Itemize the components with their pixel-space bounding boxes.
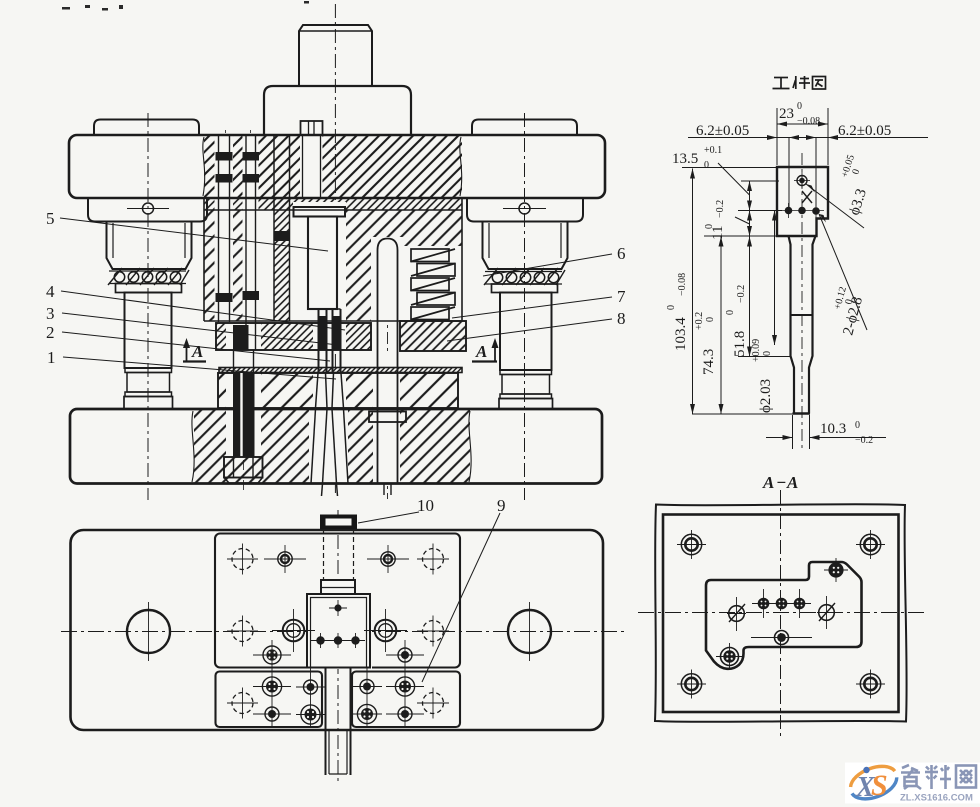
- stock strip: [219, 368, 462, 373]
- feeder tab part 10: [320, 515, 357, 530]
- svg-text:9: 9: [497, 496, 506, 515]
- svg-text:6: 6: [617, 244, 626, 263]
- svg-text:+0.1: +0.1: [704, 145, 722, 156]
- lobe screw: [721, 648, 739, 666]
- lower die shoe: [70, 409, 602, 484]
- bottom centre hole: [775, 631, 789, 645]
- white void knockout rod pocket: [371, 237, 404, 321]
- white void rod channel die+shoe: [373, 351, 400, 483]
- svg-text:A: A: [475, 342, 487, 361]
- svg-text:−: −: [776, 473, 786, 492]
- blank layout contour: [706, 562, 862, 669]
- top slotted screw: [301, 121, 323, 135]
- svg-text:0: 0: [704, 160, 709, 171]
- T stem: [325, 668, 327, 776]
- dimension extension lines: [682, 108, 928, 449]
- scan specks top left: [62, 1, 309, 11]
- svg-text:0: 0: [797, 101, 802, 112]
- right guide bushing boss: [467, 198, 583, 222]
- dashed tapped holes with crosshairs: [232, 549, 444, 714]
- svg-text:10.3: 10.3: [820, 421, 846, 437]
- screw head: [224, 457, 263, 478]
- hatch die plate: [218, 373, 458, 408]
- coil spring (part 6): [411, 249, 455, 320]
- hatch stripper plate: [216, 323, 371, 350]
- small double circles top row: [278, 552, 292, 566]
- shank flange: [264, 86, 411, 135]
- svg-text:−0.08: −0.08: [677, 273, 688, 296]
- svg-text:A: A: [786, 473, 798, 492]
- svg-text:1: 1: [47, 348, 56, 367]
- right guide pillar: [500, 293, 552, 371]
- white void between bolts and punch chamber: [259, 210, 295, 321]
- centerlines: [61, 631, 628, 633]
- right pillar washer: [492, 284, 558, 293]
- holes: [797, 176, 807, 186]
- title: [762, 473, 798, 492]
- stripper plate outline: [216, 323, 371, 350]
- svg-text:+0.09: +0.09: [751, 339, 762, 362]
- svg-text:2: 2: [46, 323, 55, 342]
- white dots inside socket screws: [268, 651, 408, 718]
- hatch ejector block 8: [400, 321, 466, 351]
- left guide bushing boss: [88, 198, 207, 222]
- hatch upper plate: [204, 135, 462, 198]
- svg-text:0: 0: [704, 224, 715, 229]
- part stem: [789, 236, 795, 414]
- ejector block (parts 7/8): [400, 321, 466, 351]
- punch dots in plan: [334, 604, 341, 611]
- left pillar washer: [116, 284, 182, 293]
- white void spring pocket: [404, 246, 462, 321]
- left guide pillar: [125, 293, 172, 369]
- svg-text:+0.2: +0.2: [694, 312, 705, 330]
- svg-text:74.3: 74.3: [701, 349, 717, 375]
- wavy break lines upper plate: [203, 137, 205, 196]
- zi: [902, 765, 909, 768]
- right bushing cap: [472, 120, 577, 136]
- centerline stripper bolts: [225, 130, 227, 310]
- centerline knockout rod: [387, 240, 389, 499]
- upper die shoe plate: [69, 135, 605, 198]
- backing plate lines: [204, 197, 462, 199]
- white void blade passage stripper: [313, 323, 346, 350]
- punch blades: [318, 309, 320, 373]
- svg-text:0: 0: [725, 310, 736, 315]
- corner screws: [681, 534, 880, 694]
- T top tab: [321, 580, 355, 594]
- svg-text:−0.2: −0.2: [715, 200, 726, 218]
- left boss center mark: [143, 203, 154, 214]
- right spring washer row: [485, 271, 562, 273]
- white void screw head slot: [300, 120, 323, 198]
- svg-text:5: 5: [46, 209, 55, 228]
- centerline left pillar: [147, 113, 149, 500]
- svg-text:23: 23: [779, 106, 794, 122]
- centerline right pillar: [524, 113, 526, 500]
- workpiece texts: [666, 76, 891, 446]
- stripper screw thread (black): [233, 325, 255, 457]
- narrow riser strip: [273, 135, 275, 321]
- part centerline: [801, 153, 803, 449]
- bump screw: [828, 562, 843, 577]
- dimension texts: [672, 106, 891, 437]
- rod collar: [369, 412, 406, 423]
- arrowheads: [690, 122, 838, 441]
- knockout rod dome: [378, 239, 398, 322]
- svg-text:−0.08: −0.08: [797, 116, 820, 127]
- liao: [930, 765, 933, 789]
- left bushing body: [107, 222, 192, 270]
- wang: [956, 766, 976, 788]
- centerlines: [780, 490, 782, 736]
- zi liao wang drawn glyphs: [901, 765, 976, 789]
- part head outline: [777, 167, 828, 236]
- svg-text:51.8: 51.8: [732, 331, 748, 357]
- white void punch chamber + punch: [293, 202, 346, 321]
- white void screw channel through stripper/die/shoe: [226, 323, 261, 457]
- svg-text:0: 0: [855, 420, 860, 431]
- svg-text:−0.2: −0.2: [736, 285, 747, 303]
- punch body (part 5): [308, 217, 337, 310]
- hatch punch fixing plate: [204, 210, 462, 321]
- svg-text:−0.2: −0.2: [855, 435, 873, 446]
- punch head: [294, 207, 346, 217]
- dashed guide lines from tab: [323, 529, 325, 580]
- white void die slots: [313, 373, 346, 408]
- T cutout white: [308, 578, 372, 669]
- hatch lower die shoe: [194, 409, 470, 483]
- svg-text:S: S: [871, 769, 888, 802]
- die plate (part 1 zone): [218, 373, 458, 408]
- guide pillar holes: [127, 610, 170, 653]
- svg-text:0: 0: [705, 317, 716, 322]
- svg-text:ϕ2.03: ϕ2.03: [758, 379, 774, 413]
- tu: [813, 77, 826, 90]
- svg-text:3: 3: [46, 304, 55, 323]
- die slot taper lines: [311, 373, 348, 496]
- svg-text:10: 10: [417, 496, 434, 515]
- lower blocks (plan): [216, 672, 323, 728]
- svg-text:7: 7: [617, 287, 626, 306]
- svg-text:13.5: 13.5: [672, 151, 698, 167]
- re-hatch: narrow plate strip left of punch chamber: [274, 198, 289, 321]
- outer wavy boundary: [655, 504, 907, 722]
- jian: [793, 80, 796, 88]
- centerline main: [334, 4, 336, 497]
- svg-text:6.2±0.05: 6.2±0.05: [696, 123, 749, 139]
- svg-text:103.4: 103.4: [673, 317, 689, 351]
- white crosses inside filled screws: [726, 567, 839, 660]
- section A arrows: [183, 342, 497, 362]
- tapped circles with diagonal: [729, 606, 745, 622]
- right bushing body: [483, 222, 568, 270]
- left bushing cap: [94, 120, 199, 136]
- svg-text:6.2±0.05: 6.2±0.05: [838, 123, 891, 139]
- knockout rod body: [377, 321, 379, 484]
- x mark: [802, 191, 812, 203]
- svg-text:A: A: [762, 473, 774, 492]
- big double circles mid row: [283, 620, 305, 642]
- svg-text:ZL.XS1616.COM: ZL.XS1616.COM: [900, 793, 973, 804]
- T head outline: [307, 594, 370, 668]
- white voids: stripper bolt channels: [215, 133, 234, 321]
- lower shoe outline (plan): [71, 530, 604, 730]
- shank small top block: [299, 25, 372, 86]
- socket screws and dowels lower area: [262, 646, 414, 724]
- title gongjiantu drawn glyphs: [773, 76, 826, 89]
- die block upper (plan): [215, 534, 460, 668]
- svg-text:A: A: [191, 342, 203, 361]
- stripper bolt rods: [218, 135, 220, 322]
- svg-text:8: 8: [617, 309, 626, 328]
- hatch backing plate: [204, 198, 462, 210]
- gong: [774, 77, 788, 79]
- white void die exit lower shoe: [309, 409, 348, 484]
- plan view hole circles: [227, 544, 449, 729]
- inner plate rect: [663, 515, 899, 713]
- part number labels and leaders: [60, 218, 612, 682]
- left spring washer row: [109, 270, 186, 272]
- svg-text:0: 0: [666, 305, 677, 310]
- bolt retaining rings (black): [216, 152, 290, 302]
- svg-text:0: 0: [762, 351, 773, 356]
- svg-text:4: 4: [46, 282, 55, 301]
- punch trio: [758, 598, 770, 610]
